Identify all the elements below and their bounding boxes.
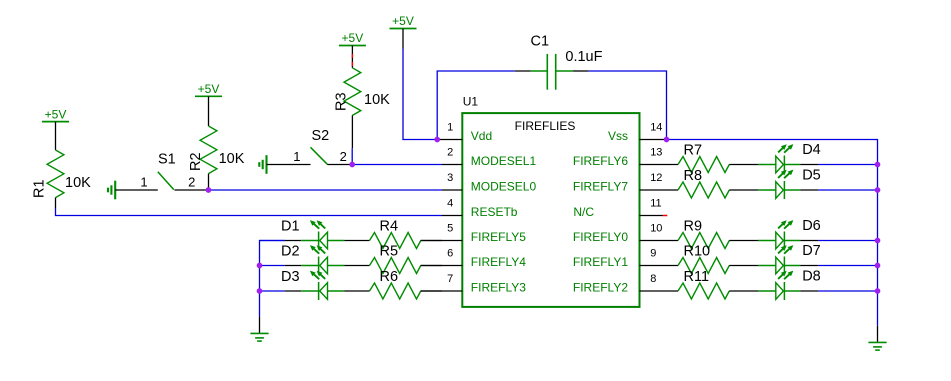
wire R1 bottom stub xyxy=(55,198,57,208)
U1 pin 11 no-connect red mark xyxy=(663,215,667,217)
wire Vdd +5V stub xyxy=(402,29,404,49)
svg-text:FIREFLY1: FIREFLY1 xyxy=(573,255,628,269)
U1 pin 2 stub xyxy=(442,164,462,166)
wire R1 to pin4 net xyxy=(56,208,443,216)
switch S2 lever xyxy=(311,147,328,164)
wire R3 bottom stub xyxy=(351,115,353,148)
wire left LED rail vertical xyxy=(260,241,285,317)
resistor R7 xyxy=(678,157,729,173)
svg-text:D2: D2 xyxy=(281,243,300,259)
svg-text:1: 1 xyxy=(447,122,453,134)
wire R10 to LED D7 xyxy=(729,265,758,267)
svg-text:C1: C1 xyxy=(531,33,550,49)
svg-text:9: 9 xyxy=(650,248,656,260)
svg-text:D4: D4 xyxy=(802,142,821,158)
U1 pin 13 stub xyxy=(640,164,679,166)
node S1-R2 junction xyxy=(206,187,212,193)
svg-text:U1: U1 xyxy=(463,94,479,108)
wire +5V down to Vdd node xyxy=(403,49,440,140)
svg-text:MODESEL0: MODESEL0 xyxy=(471,180,537,194)
svg-text:+5V: +5V xyxy=(342,31,364,45)
svg-text:5: 5 xyxy=(447,223,453,235)
resistor R3 xyxy=(344,68,361,116)
svg-text:S1: S1 xyxy=(158,152,176,168)
svg-text:6: 6 xyxy=(447,248,453,260)
resistor R5 xyxy=(370,258,421,274)
svg-text:10K: 10K xyxy=(219,151,245,167)
svg-text:FIREFLY6: FIREFLY6 xyxy=(573,154,628,168)
wire D3 to R6 xyxy=(345,290,370,292)
LED D2 xyxy=(301,265,318,267)
node Vss junction xyxy=(664,137,670,143)
U1 pin 8 stub xyxy=(640,290,679,292)
node Vdd junction xyxy=(434,137,440,143)
wire R4 to U1 xyxy=(421,240,442,242)
svg-text:R7: R7 xyxy=(684,142,703,158)
wire D6 cathode lead xyxy=(800,240,818,242)
wire S2 to pin2 MODESEL1 xyxy=(352,164,442,166)
svg-text:+5V: +5V xyxy=(198,82,220,96)
svg-text:R11: R11 xyxy=(684,269,710,285)
svg-text:10: 10 xyxy=(650,223,662,235)
wire D7 to right rail xyxy=(818,265,877,267)
LED D3 xyxy=(301,290,318,292)
U1 pin 3 stub xyxy=(442,189,462,191)
node D3 rail junction xyxy=(257,288,263,294)
wire R11 to LED D8 xyxy=(729,290,758,292)
U1 pin 10 stub xyxy=(640,240,679,242)
wire right rail ground stub xyxy=(877,326,879,343)
wire R2 bottom stub xyxy=(208,174,210,190)
resistor R1 xyxy=(47,150,64,198)
LED D4 xyxy=(758,164,775,166)
U1 pin 11 stub xyxy=(640,215,663,217)
wire rail to D1 xyxy=(260,240,285,242)
S2 pin 2 stub xyxy=(327,164,352,166)
svg-text:2: 2 xyxy=(188,175,195,190)
wire D2 cathode lead xyxy=(285,265,301,267)
svg-text:R9: R9 xyxy=(684,218,703,234)
resistor R10 xyxy=(678,258,729,274)
U1 pin 4 stub xyxy=(442,215,462,217)
node D6 rail junction xyxy=(875,238,881,244)
S1 pin 2 stub xyxy=(175,189,209,191)
U1 pin 6 stub xyxy=(421,265,463,267)
svg-text:R4: R4 xyxy=(380,219,399,235)
wire D5 to right rail xyxy=(818,189,877,191)
svg-text:D5: D5 xyxy=(802,168,821,184)
wire D8 cathode lead xyxy=(800,290,818,292)
wire D5 cathode lead xyxy=(800,189,818,191)
svg-text:FIREFLY7: FIREFLY7 xyxy=(573,180,628,194)
wire C1 right to Vss branch xyxy=(588,71,666,140)
svg-text:R2: R2 xyxy=(188,152,204,171)
LED D5 xyxy=(758,189,775,191)
wire R6 to U1 xyxy=(421,290,442,292)
node S2-R3 junction xyxy=(349,162,355,168)
LED D1 xyxy=(301,240,318,242)
svg-text:2: 2 xyxy=(447,147,453,159)
U1 pin 9 stub xyxy=(640,265,679,267)
svg-text:FIREFLIES: FIREFLIES xyxy=(515,119,576,133)
wire R1 +5V stub xyxy=(55,122,57,150)
ground at S2 xyxy=(265,155,267,174)
S2 pin 1 stub xyxy=(267,164,311,166)
svg-text:8: 8 xyxy=(650,273,656,285)
svg-text:R5: R5 xyxy=(380,244,399,260)
U1 pin 5 stub xyxy=(421,240,463,242)
IC U1 FIREFLIES body xyxy=(462,113,639,307)
svg-text:RESETb: RESETb xyxy=(471,205,518,219)
wire D8 to right rail xyxy=(818,290,877,292)
U1 pin 12 stub xyxy=(640,189,679,191)
svg-text:11: 11 xyxy=(650,198,661,210)
wire R9 to LED D6 xyxy=(729,240,758,242)
R3 stub red ERC dashes xyxy=(351,54,353,58)
node D2 rail junction xyxy=(257,263,263,269)
svg-text:FIREFLY0: FIREFLY0 xyxy=(573,230,628,244)
svg-text:Vdd: Vdd xyxy=(471,129,492,143)
svg-text:0.1uF: 0.1uF xyxy=(565,49,602,65)
svg-text:R3: R3 xyxy=(334,92,350,111)
resistor R6 xyxy=(370,283,421,299)
svg-text:D3: D3 xyxy=(281,269,300,285)
wire D1 to R4 xyxy=(345,240,370,242)
wire pin14 to right rail xyxy=(667,140,878,326)
svg-text:1: 1 xyxy=(293,149,300,164)
svg-text:FIREFLY5: FIREFLY5 xyxy=(471,230,526,244)
svg-text:FIREFLY3: FIREFLY3 xyxy=(471,281,526,295)
svg-text:D7: D7 xyxy=(802,243,821,259)
svg-text:3: 3 xyxy=(447,172,453,184)
LED D7 xyxy=(758,265,775,267)
wire D1 cathode lead xyxy=(285,240,301,242)
node D5 rail junction xyxy=(875,187,881,193)
ground left rail xyxy=(250,332,268,334)
U1 pin 1 stub xyxy=(437,139,462,141)
svg-text:S2: S2 xyxy=(312,128,330,144)
wire R8 to LED D5 xyxy=(729,189,758,191)
wire D4 cathode lead xyxy=(800,164,818,166)
svg-text:10K: 10K xyxy=(364,92,390,108)
svg-text:R6: R6 xyxy=(380,269,399,285)
svg-text:7: 7 xyxy=(447,273,453,285)
svg-text:Vss: Vss xyxy=(608,129,628,143)
wire C1 left branch xyxy=(437,71,515,140)
svg-text:R8: R8 xyxy=(684,168,703,184)
node D4 rail junction xyxy=(875,162,881,168)
wire D7 cathode lead xyxy=(800,265,818,267)
wire R7 to LED D4 xyxy=(729,164,758,166)
resistor R2 xyxy=(200,126,217,174)
svg-text:FIREFLY4: FIREFLY4 xyxy=(471,255,526,269)
svg-text:R1: R1 xyxy=(32,179,48,198)
ground right rail xyxy=(868,341,886,343)
svg-text:D6: D6 xyxy=(802,218,821,234)
svg-text:FIREFLY2: FIREFLY2 xyxy=(573,281,628,295)
wire D4 to right rail xyxy=(818,164,877,166)
svg-text:13: 13 xyxy=(650,147,662,159)
node D7 rail junction xyxy=(875,263,881,269)
wire S1 to pin3 MODESEL0 xyxy=(208,189,442,191)
svg-text:14: 14 xyxy=(650,122,662,134)
resistor R8 xyxy=(678,182,729,198)
svg-text:N/C: N/C xyxy=(573,205,594,219)
resistor R9 xyxy=(678,233,729,249)
wire D2 to R5 xyxy=(345,265,370,267)
node D8 rail junction xyxy=(875,288,881,294)
svg-text:1: 1 xyxy=(140,175,147,190)
resistor R11 xyxy=(678,283,729,299)
wire R3 +5V stub xyxy=(351,46,353,68)
wire R5 to U1 xyxy=(421,265,442,267)
wire left rail ground stub xyxy=(259,317,261,334)
wire R2 +5V stub xyxy=(208,96,210,126)
U1 pin 7 stub xyxy=(421,290,463,292)
S1 pin 1 stub xyxy=(115,189,158,191)
resistor R4 xyxy=(370,233,421,249)
LED D6 xyxy=(758,240,775,242)
svg-text:D8: D8 xyxy=(802,269,821,285)
wire rail to D3 xyxy=(260,290,285,292)
capacitor C1 xyxy=(515,54,589,90)
svg-text:D1: D1 xyxy=(281,218,300,234)
wire D6 to right rail xyxy=(818,240,877,242)
U1 pin 14 stub xyxy=(640,139,667,141)
svg-text:4: 4 xyxy=(447,198,453,210)
switch S1 lever xyxy=(158,172,174,190)
ground at S1 xyxy=(114,181,116,200)
svg-text:R10: R10 xyxy=(684,243,711,259)
svg-text:MODESEL1: MODESEL1 xyxy=(471,154,537,168)
wire rail to D2 xyxy=(260,265,285,267)
LED D8 xyxy=(758,290,775,292)
svg-text:+5V: +5V xyxy=(392,14,414,28)
svg-text:10K: 10K xyxy=(65,175,91,191)
wire D3 cathode lead xyxy=(285,290,301,292)
wire R3 to S2 pin2 xyxy=(351,148,353,164)
svg-text:12: 12 xyxy=(650,172,662,184)
svg-text:2: 2 xyxy=(340,149,347,164)
svg-text:+5V: +5V xyxy=(45,107,67,121)
